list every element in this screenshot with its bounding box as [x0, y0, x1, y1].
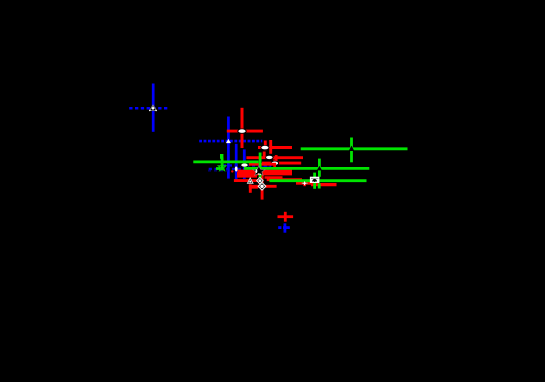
red line R12b: [311, 183, 337, 186]
error bar GA vertical: [221, 158, 224, 171]
marker B3 white vertical ellipse: [235, 166, 238, 171]
error bar B1 vertical: [152, 84, 155, 132]
error bar B4 vertical: [243, 149, 246, 179]
error bar R2 short vertical a: [264, 141, 267, 151]
marker black star: [253, 166, 265, 175]
legend red cross horizontal: [278, 215, 294, 218]
short green segment left: [216, 167, 220, 170]
red short vertical above R3: [263, 152, 266, 158]
error bar B2 vertical: [227, 117, 230, 179]
green vertical below square marker: [318, 183, 321, 188]
error bar R3 short vertical: [275, 155, 278, 162]
red line R5: [249, 163, 276, 166]
marker diamond D1 with dot: [257, 177, 263, 183]
error bar R1 horizontal: [227, 130, 263, 133]
error bar GC horizontal: [269, 179, 366, 182]
error bar RD2 vertical: [261, 171, 264, 200]
error bar RD2 horizontal: [249, 185, 277, 188]
marker GA green square: [220, 154, 223, 159]
error bar B4 horizontal dashed: [223, 164, 271, 166]
red line R12a: [296, 182, 311, 185]
error bar R1 vertical: [241, 108, 244, 148]
green vertical through star: [259, 153, 262, 179]
error bar B2 horizontal dashed: [199, 140, 262, 143]
marker GA green open star: [218, 163, 226, 171]
marker B1 open triangle with dot: [149, 105, 157, 111]
red vertical behind diamond D1: [258, 177, 261, 184]
error bar B1 horizontal dashed: [129, 107, 167, 110]
red vertical at white star: [303, 181, 306, 186]
error bar R3 horizontal: [246, 156, 303, 159]
blue solid segment: [260, 166, 271, 168]
error bar GD vertical: [318, 159, 321, 177]
red line R10 through triangle: [234, 179, 258, 182]
error bar G1 horizontal: [301, 147, 408, 150]
error bar R4 horizontal: [262, 162, 301, 165]
error bar GA horizontal: [193, 160, 258, 163]
red line R8: [237, 175, 257, 178]
legend red cross vertical: [284, 212, 287, 222]
marker R4 white ellipse: [270, 161, 279, 166]
error bar R2 short vertical b: [269, 140, 272, 154]
legend blue cross vertical: [283, 223, 286, 232]
red line R8b: [265, 176, 283, 179]
red vertical above triangle: [249, 174, 252, 177]
error bar GC vertical: [313, 173, 316, 189]
red corner horizontal: [249, 186, 258, 189]
marker open triangle with dot: [248, 178, 253, 183]
marker white open rectangle with black dome: [310, 177, 320, 183]
error bar R4 short vertical: [273, 160, 276, 169]
marker GD black triangle: [317, 166, 322, 171]
error bar G1 vertical: [350, 138, 353, 163]
error bar GD horizontal: [244, 167, 369, 170]
marker white four point star: [302, 181, 308, 185]
red line R6: [238, 170, 293, 173]
marker B2 small white triangle: [226, 139, 231, 143]
marker R3 white ellipse: [265, 155, 274, 160]
marker diamond D2 with dot: [258, 183, 266, 191]
marker R2 white ellipse: [260, 145, 269, 150]
marker R1 white ellipse: [237, 129, 246, 134]
error bar R2 horizontal: [258, 146, 292, 149]
faint extra dashed line: [208, 170, 228, 172]
marker G1 black triangle: [349, 146, 355, 151]
error bar B3 horizontal dashed: [209, 168, 269, 170]
legend blue cross horizontal dashed: [278, 226, 281, 229]
error bar B3 vertical: [235, 144, 238, 181]
red line R7: [237, 172, 292, 175]
red line R9: [267, 178, 302, 181]
marker B4 white ellipse: [240, 163, 248, 168]
red vertical below triangle: [249, 184, 252, 193]
red dot: [231, 170, 233, 172]
